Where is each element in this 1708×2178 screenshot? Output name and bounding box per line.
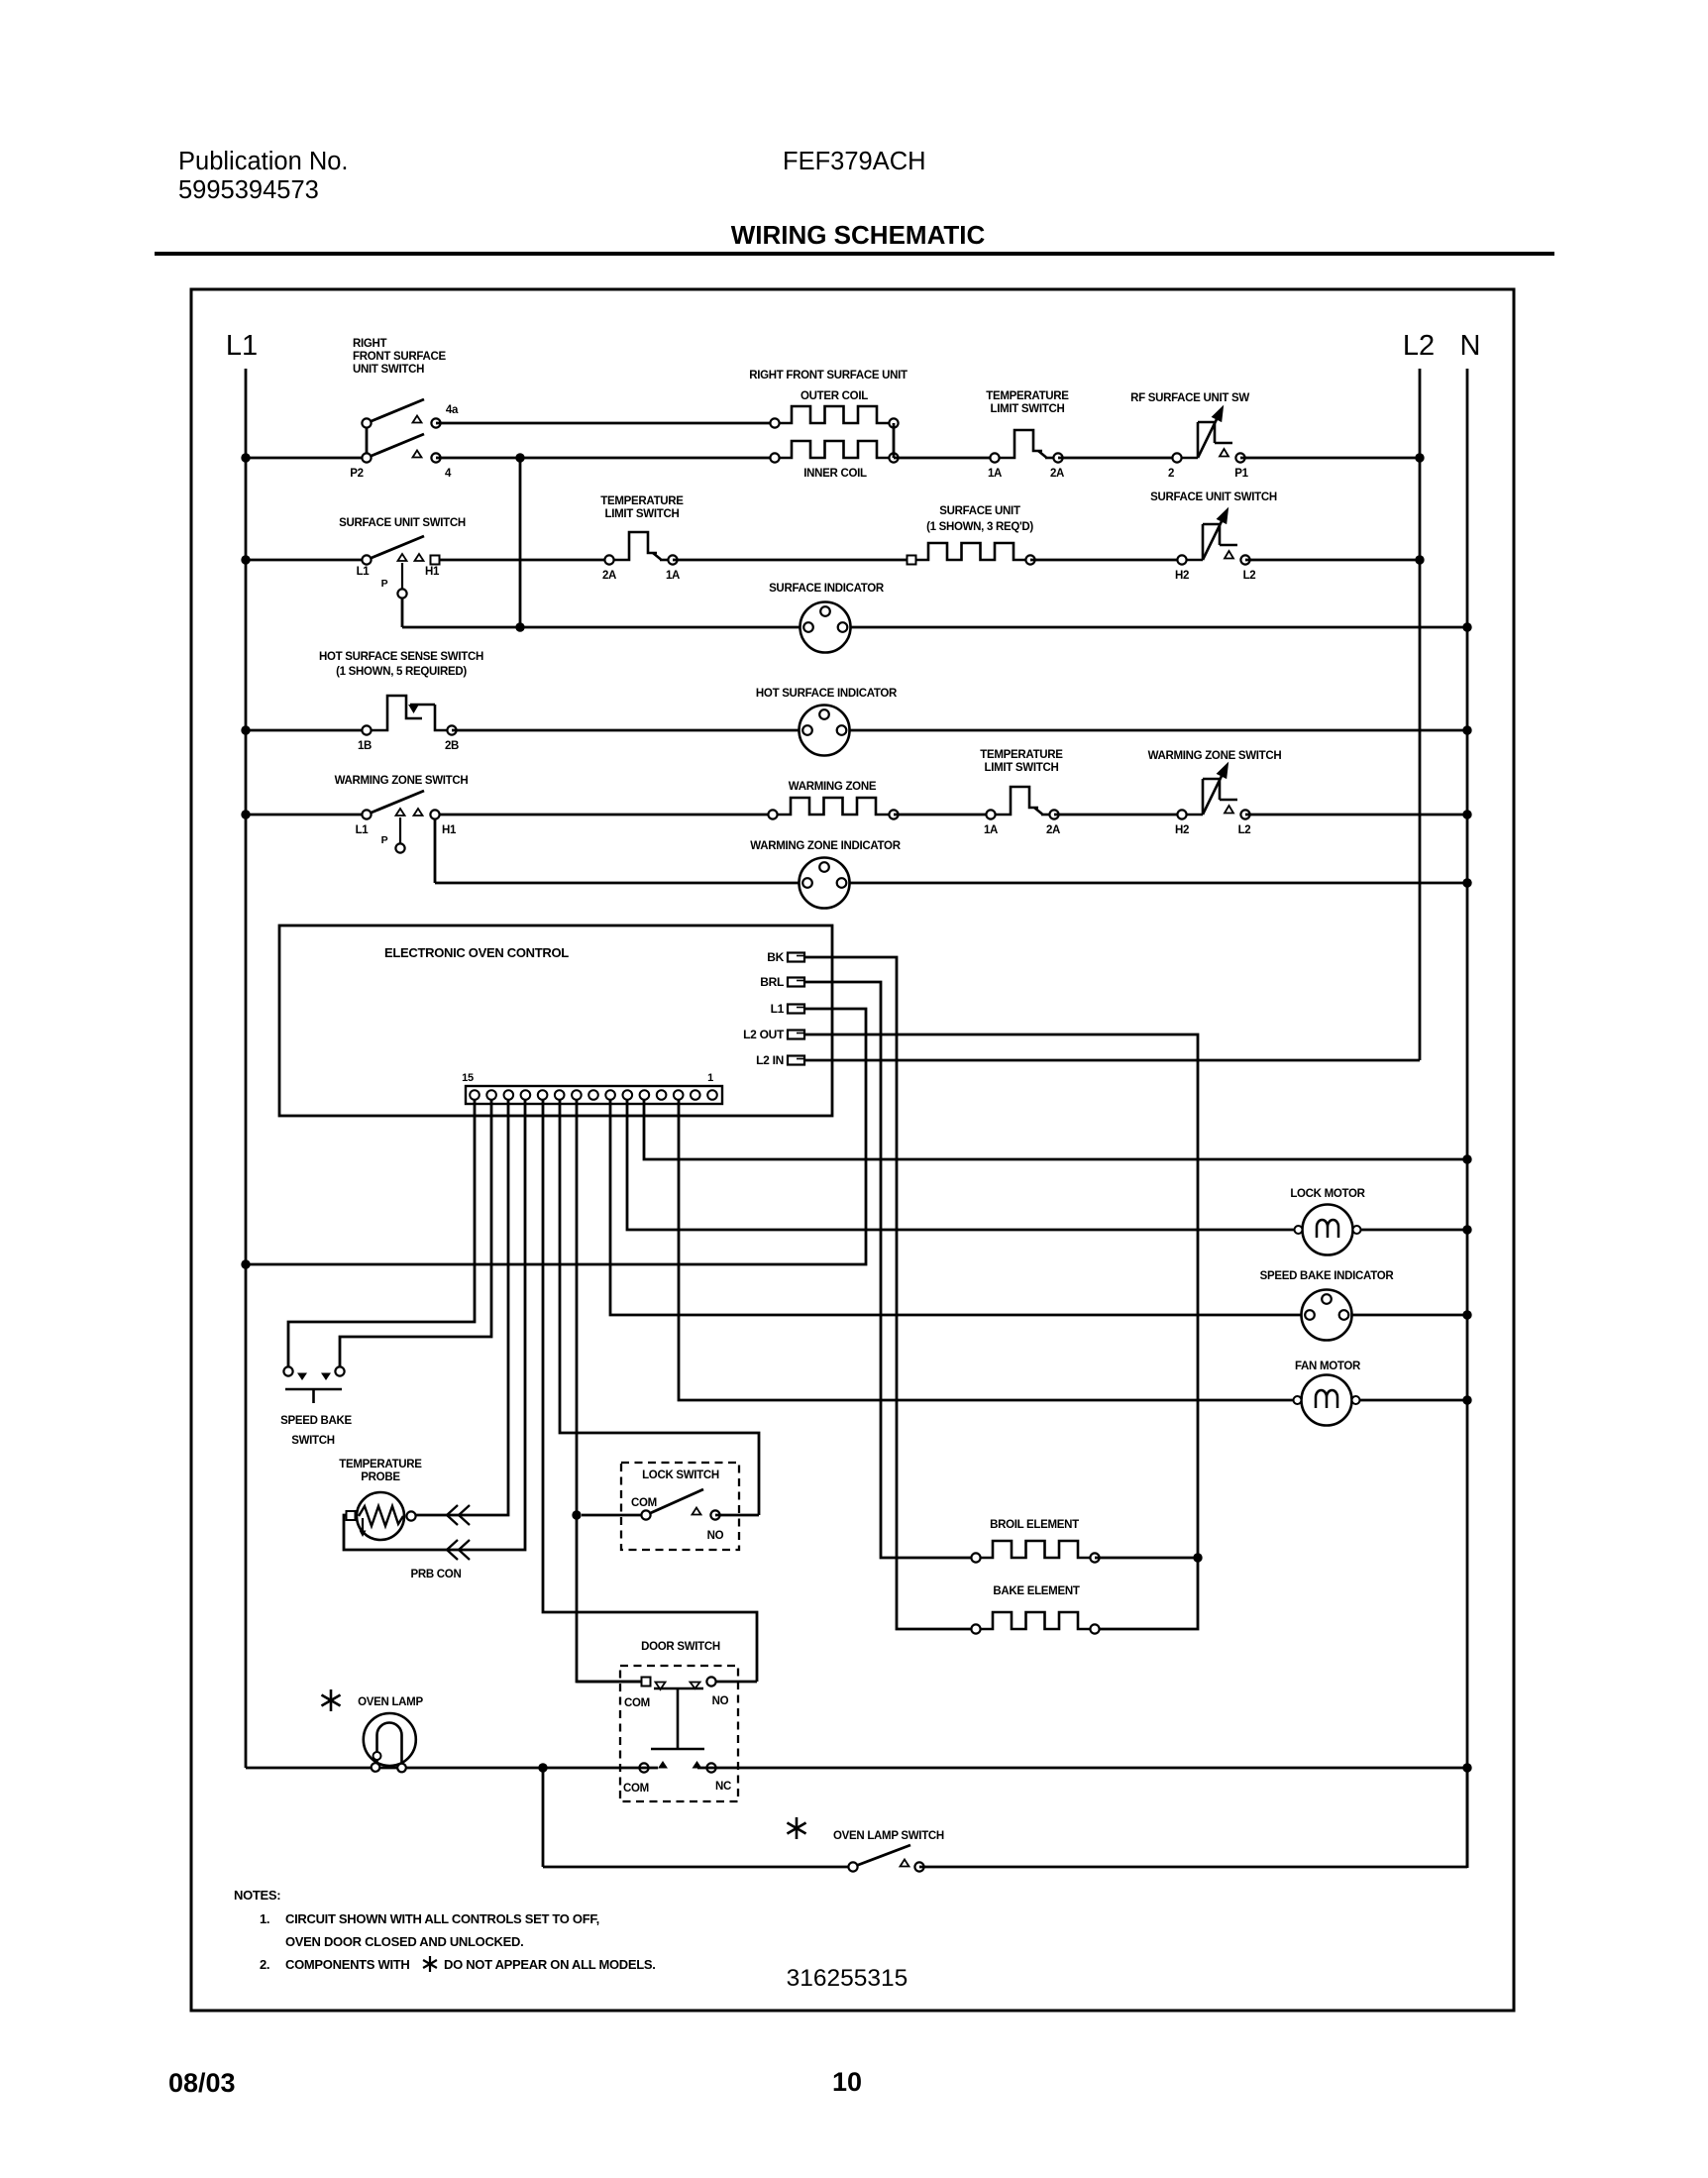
switch speed bake [283, 1366, 344, 1403]
title rule [155, 252, 1554, 256]
junction broil L2 [1193, 1553, 1202, 1562]
svg-text:SPEED BAKE INDICATOR: SPEED BAKE INDICATOR [1260, 1270, 1395, 1282]
svg-text:316255315: 316255315 [787, 1965, 908, 1992]
svg-text:CIRCUIT SHOWN WITH ALL CONTROL: CIRCUIT SHOWN WITH ALL CONTROLS SET TO O… [285, 1911, 599, 1926]
svg-text:P2: P2 [350, 468, 363, 480]
svg-text:(1 SHOWN, 3 REQ'D): (1 SHOWN, 3 REQ'D) [926, 521, 1033, 533]
junction N row4 [1462, 725, 1471, 734]
svg-text:L1: L1 [357, 566, 371, 578]
junction N row3 [1462, 622, 1471, 631]
svg-text:BAKE ELEMENT: BAKE ELEMENT [993, 1585, 1079, 1597]
svg-text:RIGHT FRONT SURFACE UNIT: RIGHT FRONT SURFACE UNIT [749, 370, 907, 381]
wire row1 to L2 bus [1240, 457, 1420, 460]
svg-text:2.: 2. [260, 1957, 269, 1972]
wire row1 L1 to switch [246, 457, 367, 460]
junction L1 row4 [241, 725, 250, 734]
wire L1 return to L1 bus [246, 1009, 866, 1264]
junction L1 row5 [241, 810, 250, 818]
wire L2 IN to L2 bus [804, 1059, 1420, 1062]
junction N row6 [1462, 878, 1471, 887]
heating element broil [971, 1541, 1099, 1563]
svg-text:ELECTRONIC OVEN CONTROL: ELECTRONIC OVEN CONTROL [384, 945, 569, 960]
indicator lamp hot surface indicator [800, 706, 850, 756]
wire row5 switch to coil [440, 814, 773, 817]
wire row1 coil to temp limit [894, 457, 995, 460]
svg-text:15: 15 [462, 1072, 474, 1084]
wire row1 switch to inner coil [436, 457, 775, 460]
note 2 [260, 1957, 656, 1972]
label SPEED BAKE SWITCH [280, 1415, 352, 1447]
asterisk note 2 [423, 1956, 437, 1972]
junction lamp switch tap [538, 1763, 547, 1772]
junction row3 tie bottom [515, 622, 524, 631]
svg-text:RF SURFACE UNIT SW: RF SURFACE UNIT SW [1130, 392, 1249, 404]
junction N bottom row [1462, 1763, 1471, 1772]
svg-text:L2: L2 [1243, 570, 1256, 582]
svg-text:08/03: 08/03 [168, 2068, 236, 2098]
svg-text:P: P [381, 578, 388, 590]
terminal L2 IN [756, 1053, 804, 1067]
label RIGHT FRONT SURFACE UNIT SWITCH [353, 338, 446, 376]
switch lock COM/NO [582, 1489, 759, 1542]
chevron connector probe bottom [447, 1540, 458, 1560]
svg-text:PRB CON: PRB CON [411, 1569, 462, 1580]
wire row3 to N [520, 626, 1467, 629]
svg-text:LOCK SWITCH: LOCK SWITCH [642, 1470, 719, 1481]
wire broil to L2 OUT drop [1095, 1557, 1198, 1560]
wire row5 L1 to switch [246, 814, 367, 817]
wire pin5 to N [644, 1100, 1467, 1159]
motor lock motor [1295, 1205, 1361, 1255]
wire row4 L1 to 1B [246, 729, 367, 732]
svg-text:4: 4 [445, 468, 452, 480]
junction L1 return [241, 1259, 250, 1268]
label RIGHT FRONT SURFACE UNIT / OUTER COIL [749, 370, 907, 402]
svg-text:2A: 2A [1050, 468, 1064, 480]
label TEMPERATURE PROBE [339, 1459, 422, 1483]
connector strip P1 pins 15..1 [462, 1072, 722, 1104]
svg-text:L1: L1 [771, 1002, 785, 1016]
junction L1 row2 [241, 555, 250, 564]
switch RF surface unit 2/P1 [1168, 407, 1249, 480]
wire pin7 to speed bake indicator row [610, 1100, 1467, 1315]
wire lamp switch row right [919, 1866, 1467, 1869]
switch surface unit L1/P/H1 [357, 536, 440, 599]
door switch upper pole COM/NO [577, 1677, 757, 1749]
svg-text:WARMING ZONE SWITCH: WARMING ZONE SWITCH [1148, 750, 1282, 762]
wire pin3 to fan motor row [679, 1100, 1467, 1400]
label SURFACE UNIT (1 SHOWN, 3 REQ'D) [926, 505, 1033, 533]
electronic oven control box U1 [279, 926, 832, 1116]
svg-text:OUTER COIL: OUTER COIL [801, 390, 868, 402]
svg-text:WIRING SCHEMATIC: WIRING SCHEMATIC [731, 220, 986, 250]
svg-text:SPEED BAKE: SPEED BAKE [280, 1415, 352, 1427]
switch hot surface sense 1B/2B [358, 696, 459, 752]
wire row5 to N [1245, 814, 1467, 817]
svg-text:COM: COM [624, 1697, 650, 1709]
svg-text:NO: NO [712, 1695, 729, 1707]
wire 4a branch to outer coil [436, 422, 775, 425]
svg-text:P: P [381, 834, 388, 846]
svg-text:H2: H2 [1175, 570, 1189, 582]
chevron connector probe top second [459, 1505, 470, 1525]
terminal L1 [771, 1002, 804, 1016]
wire row4 to N [452, 729, 1467, 732]
switch oven lamp [848, 1845, 923, 1872]
wire pin9 to lock COM and door COM [577, 1100, 646, 1682]
heating element outer coil [770, 406, 898, 428]
junction L2 row2 [1415, 555, 1424, 564]
switch temperature limit row1 1A/2A [988, 430, 1064, 480]
svg-text:TEMPERATURE: TEMPERATURE [339, 1459, 422, 1470]
svg-text:H1: H1 [425, 566, 440, 578]
oven lamp [364, 1713, 416, 1772]
wire row2 L1 to switch [246, 559, 367, 562]
svg-text:1B: 1B [358, 740, 372, 752]
svg-text:UNIT SWITCH: UNIT SWITCH [353, 364, 424, 376]
wire BK to bake element [804, 957, 976, 1629]
svg-text:HOT SURFACE INDICATOR: HOT SURFACE INDICATOR [756, 688, 898, 700]
svg-text:WARMING ZONE: WARMING ZONE [789, 781, 877, 793]
note 1 line 1 [260, 1911, 599, 1926]
junction L1 row1 [241, 453, 250, 462]
svg-text:1.: 1. [260, 1911, 269, 1926]
wire pin10 to lock switch NO [560, 1100, 759, 1515]
svg-text:COMPONENTS WITH: COMPONENTS WITH [285, 1957, 410, 1972]
wire row5 coil to temp limit [894, 814, 991, 817]
svg-text:H2: H2 [1175, 824, 1189, 836]
wire H1 drop to row6 [435, 819, 1467, 883]
junction N speed bake indicator [1462, 1310, 1471, 1319]
junction L2 row1 [1415, 453, 1424, 462]
wire L2 OUT to elements [804, 1035, 1198, 1629]
svg-text:COM: COM [631, 1497, 657, 1509]
svg-text:FEF379ACH: FEF379ACH [783, 148, 926, 175]
wire bottom row L1 to door COM [246, 1767, 658, 1770]
label TEMPERATURE LIMIT SWITCH row1 [986, 390, 1069, 415]
wire outer-inner coil link [893, 423, 896, 458]
terminal BK [767, 950, 804, 964]
svg-text:L2: L2 [1238, 824, 1251, 836]
wire pin13 to temperature probe [411, 1100, 508, 1515]
svg-text:2: 2 [1168, 468, 1174, 480]
svg-text:SURFACE INDICATOR: SURFACE INDICATOR [769, 583, 885, 595]
wire L1 bus [245, 369, 248, 1768]
switch warming zone H2/L2 [1175, 764, 1250, 836]
asterisk oven lamp switch [787, 1817, 805, 1839]
svg-text:PROBE: PROBE [361, 1471, 400, 1483]
svg-text:2B: 2B [445, 740, 459, 752]
svg-text:P1: P1 [1234, 468, 1248, 480]
svg-text:TEMPERATURE: TEMPERATURE [986, 390, 1069, 402]
svg-text:NOTES:: NOTES: [234, 1888, 280, 1903]
label TEMPERATURE LIMIT SWITCH row2 [600, 495, 684, 520]
label OVEN LAMP with asterisk [358, 1696, 423, 1708]
wire row2 coil to surface unit switch [1030, 559, 1182, 562]
heating element warming zone [768, 798, 898, 819]
wire N bottom corner [1466, 1768, 1469, 1868]
svg-text:L2 OUT: L2 OUT [743, 1028, 785, 1041]
svg-text:FAN MOTOR: FAN MOTOR [1295, 1361, 1361, 1372]
svg-text:LIMIT SWITCH: LIMIT SWITCH [605, 508, 680, 520]
svg-text:L1: L1 [226, 330, 258, 362]
wire P drop to row3 [402, 599, 520, 627]
junction lock COM feed [572, 1510, 581, 1519]
wire pin11 to door switch NO [543, 1100, 757, 1682]
svg-text:2A: 2A [602, 570, 616, 582]
svg-text:(1 SHOWN, 5 REQUIRED): (1 SHOWN, 5 REQUIRED) [336, 666, 467, 678]
junction N pin5 [1462, 1154, 1471, 1163]
wire row2 switch to temp limit [440, 559, 609, 562]
svg-text:BK: BK [767, 950, 784, 964]
svg-text:5995394573: 5995394573 [178, 176, 319, 204]
door switch dashed box [620, 1666, 738, 1801]
wire bottom row NC to N [697, 1767, 1467, 1770]
svg-text:BRL: BRL [760, 975, 784, 989]
svg-text:NO: NO [707, 1530, 724, 1542]
svg-text:10: 10 [832, 2067, 862, 2097]
schematic border frame [191, 289, 1514, 2011]
svg-text:HOT SURFACE SENSE SWITCH: HOT SURFACE SENSE SWITCH [319, 651, 483, 663]
svg-text:SURFACE UNIT SWITCH: SURFACE UNIT SWITCH [339, 517, 466, 529]
door switch lower pole COM/NC [623, 1761, 731, 1795]
svg-text:LOCK MOTOR: LOCK MOTOR [1290, 1188, 1365, 1200]
junction N lock motor [1462, 1225, 1471, 1234]
svg-text:1A: 1A [988, 468, 1002, 480]
indicator lamp surface indicator [801, 602, 851, 653]
label HOT SURFACE SENSE SWITCH (1 SHOWN, 5 REQUIRED) [319, 651, 483, 678]
wire L2 bus [1419, 369, 1422, 1060]
chevron connector probe bottom second [459, 1540, 470, 1560]
heating element surface unit coil [907, 543, 1035, 565]
wire N bus [1466, 369, 1469, 1868]
wire pin14 to speed bake switch [340, 1100, 491, 1366]
svg-text:2A: 2A [1046, 824, 1060, 836]
svg-text:OVEN LAMP SWITCH: OVEN LAMP SWITCH [833, 1830, 944, 1842]
switch warming zone L1/P/H1 [356, 791, 457, 853]
wire lamp switch drop [542, 1768, 545, 1867]
svg-text:INNER COIL: INNER COIL [803, 468, 867, 480]
svg-text:L2: L2 [1403, 330, 1435, 362]
svg-text:COM: COM [623, 1783, 649, 1795]
indicator lamp warming zone indicator [800, 858, 850, 909]
svg-text:1: 1 [707, 1072, 713, 1084]
svg-text:WARMING ZONE INDICATOR: WARMING ZONE INDICATOR [750, 840, 901, 852]
asterisk oven lamp [321, 1689, 340, 1711]
svg-text:LIMIT SWITCH: LIMIT SWITCH [985, 762, 1059, 774]
wire row1 temp limit to RF switch [1058, 457, 1177, 460]
terminal BRL [760, 975, 804, 989]
svg-text:1A: 1A [984, 824, 998, 836]
wire row2 temp limit to surface unit coil [673, 559, 911, 562]
temperature probe sensor [347, 1492, 416, 1540]
svg-text:SWITCH: SWITCH [291, 1435, 335, 1447]
svg-text:NC: NC [715, 1781, 731, 1793]
svg-text:OVEN LAMP: OVEN LAMP [358, 1696, 423, 1708]
switch temperature limit row2 2A/1A [602, 532, 680, 582]
junction row1 tie top [515, 453, 524, 462]
svg-text:BROIL ELEMENT: BROIL ELEMENT [990, 1519, 1079, 1531]
svg-text:TEMPERATURE: TEMPERATURE [980, 749, 1063, 761]
svg-text:DO NOT APPEAR ON ALL MODELS.: DO NOT APPEAR ON ALL MODELS. [444, 1957, 656, 1972]
motor fan motor [1294, 1375, 1360, 1426]
heating element bake [971, 1612, 1099, 1634]
wire pin15 to speed bake switch [288, 1100, 475, 1366]
svg-text:Publication No.: Publication No. [178, 148, 349, 175]
svg-text:L1: L1 [356, 824, 370, 836]
junction N row5 [1462, 810, 1471, 818]
svg-text:FRONT SURFACE: FRONT SURFACE [353, 351, 446, 363]
wire lamp switch row left [543, 1866, 853, 1869]
lock switch dashed box [621, 1463, 739, 1550]
svg-text:SURFACE UNIT SWITCH: SURFACE UNIT SWITCH [1150, 491, 1277, 503]
indicator lamp speed bake indicator [1302, 1290, 1352, 1341]
svg-text:H1: H1 [442, 824, 457, 836]
switch right front surface unit switch P2/4 [350, 399, 459, 480]
wire pin6 to lock motor row [627, 1100, 1467, 1230]
svg-text:OVEN DOOR CLOSED AND UNLOCKED.: OVEN DOOR CLOSED AND UNLOCKED. [285, 1934, 523, 1949]
svg-text:SURFACE UNIT: SURFACE UNIT [939, 505, 1020, 517]
chevron connector probe top [447, 1505, 458, 1525]
label TEMPERATURE LIMIT SWITCH row5 [980, 749, 1063, 774]
svg-text:RIGHT: RIGHT [353, 338, 387, 350]
wire row2 to L2 bus [1245, 559, 1420, 562]
wire pin12 probe return [344, 1100, 525, 1550]
svg-text:4a: 4a [446, 404, 459, 416]
wire BRL to broil element [804, 982, 976, 1558]
terminal L2 OUT [743, 1028, 804, 1041]
svg-text:N: N [1460, 330, 1481, 362]
svg-text:WARMING ZONE SWITCH: WARMING ZONE SWITCH [335, 775, 469, 787]
svg-text:TEMPERATURE: TEMPERATURE [600, 495, 684, 507]
svg-text:DOOR SWITCH: DOOR SWITCH [641, 1641, 720, 1653]
junction N fan motor [1462, 1395, 1471, 1404]
wire row5 temp limit to warming switch [1054, 814, 1182, 817]
switch temperature limit row5 1A/2A [984, 787, 1060, 836]
svg-text:1A: 1A [666, 570, 680, 582]
heating element inner coil [770, 441, 898, 463]
wire row1-row3 tie [519, 458, 522, 627]
switch surface unit H2/L2 [1175, 509, 1255, 582]
svg-text:LIMIT SWITCH: LIMIT SWITCH [991, 403, 1065, 415]
svg-text:L2 IN: L2 IN [756, 1053, 784, 1067]
